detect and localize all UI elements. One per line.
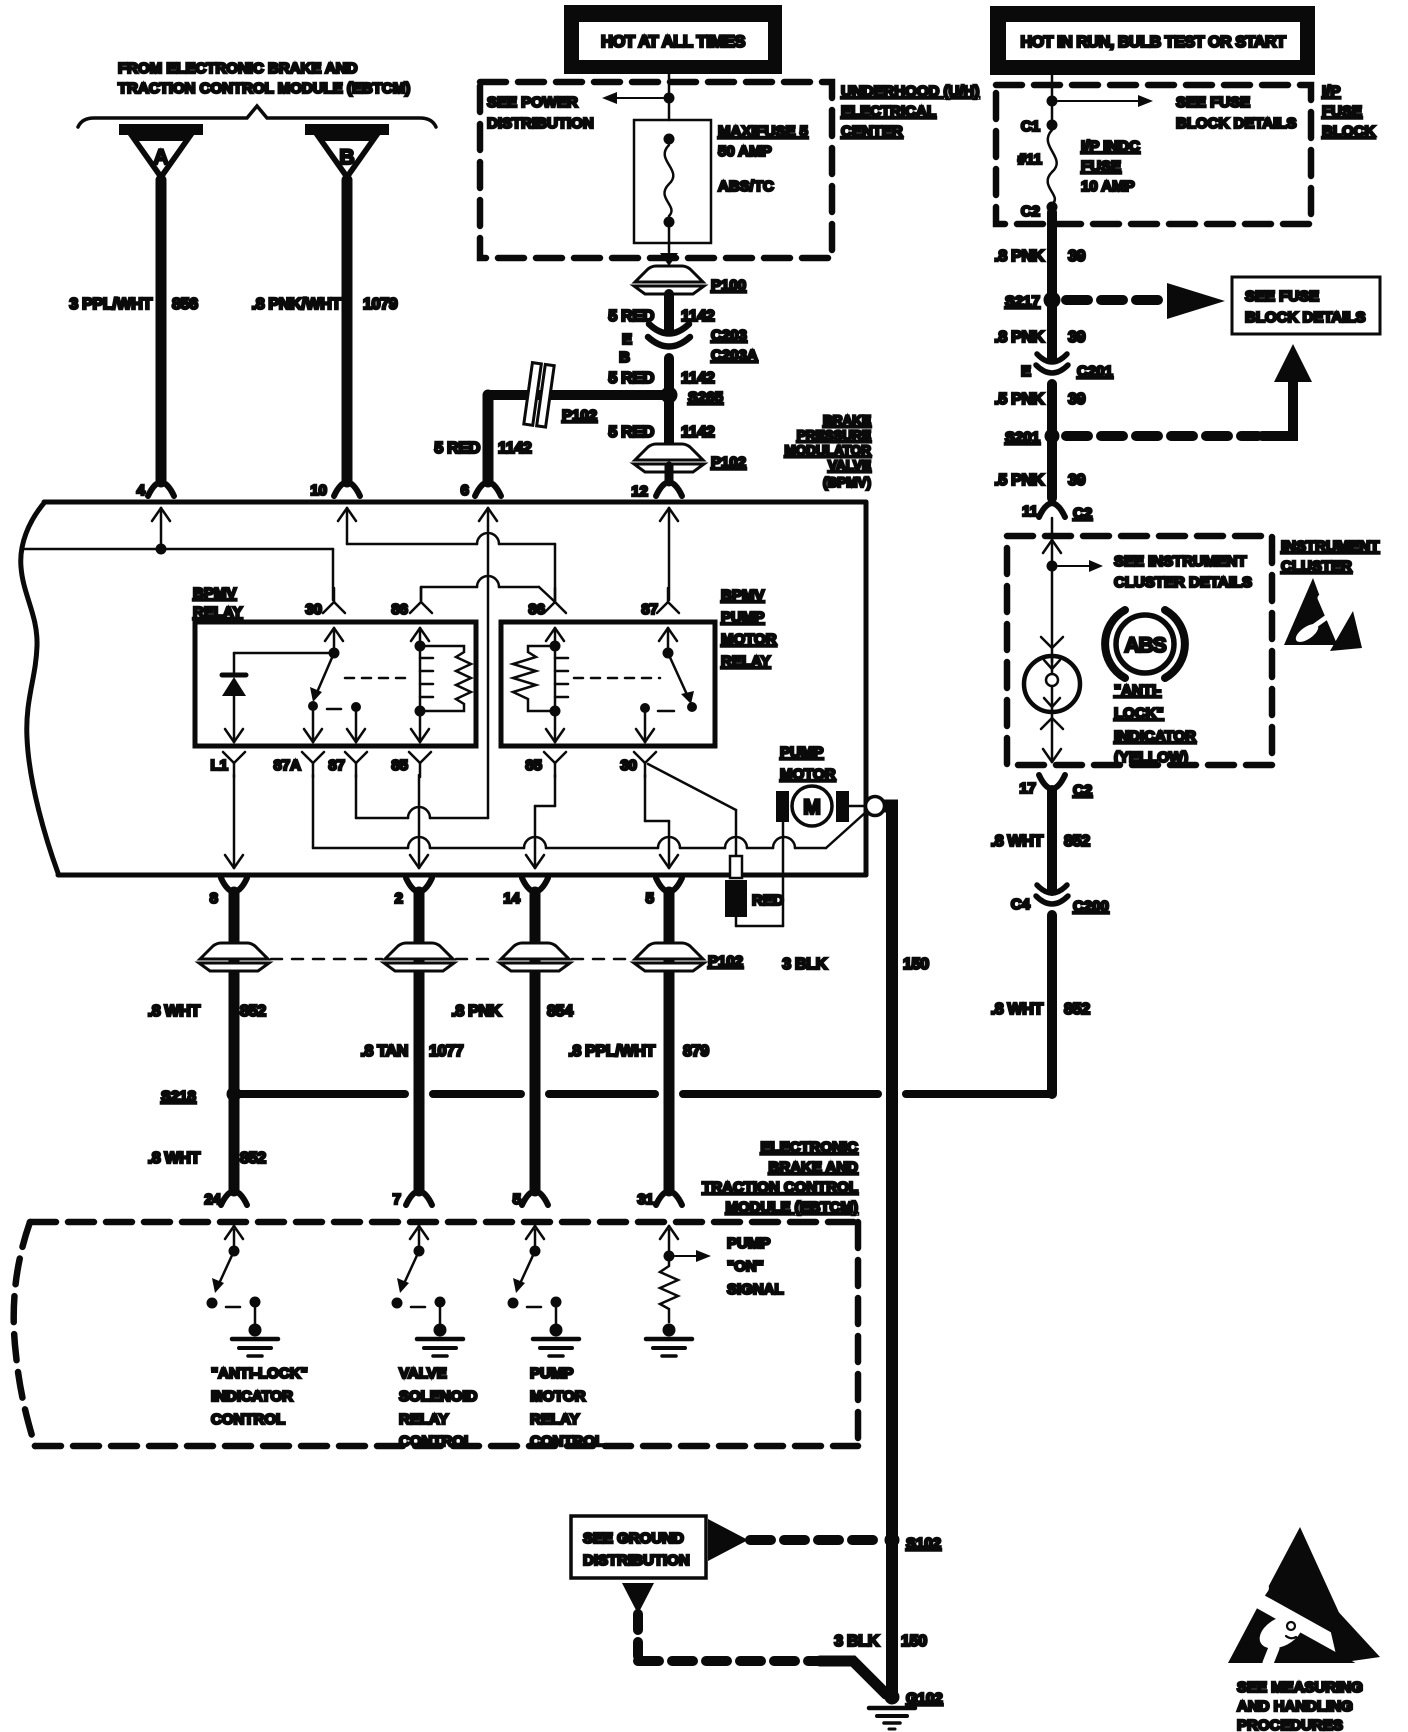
svg-text:.8 TAN: .8 TAN	[360, 1043, 408, 1060]
svg-text:1142: 1142	[681, 370, 715, 387]
svg-text:PUMP: PUMP	[727, 1235, 770, 1252]
svg-text:CONTROL: CONTROL	[211, 1411, 285, 1428]
svg-text:3 BLK: 3 BLK	[834, 1633, 879, 1650]
svg-text:C2: C2	[1073, 505, 1092, 522]
svg-text:852: 852	[1064, 1001, 1090, 1018]
svg-text:UNDERHOOD (U/H): UNDERHOOD (U/H)	[841, 83, 979, 100]
svg-text:5 RED: 5 RED	[608, 370, 654, 387]
svg-text:FUSE: FUSE	[1081, 158, 1121, 175]
svg-text:SEE POWER: SEE POWER	[487, 94, 578, 111]
svg-text:5 RED: 5 RED	[608, 424, 654, 441]
svg-text:39: 39	[1068, 248, 1086, 265]
svg-text:B: B	[619, 349, 630, 366]
svg-text:P102: P102	[711, 454, 746, 471]
svg-text:BLOCK DETAILS: BLOCK DETAILS	[1176, 115, 1297, 132]
svg-text:C1: C1	[1021, 118, 1040, 135]
svg-text:7: 7	[393, 1191, 401, 1208]
svg-text:86: 86	[528, 601, 545, 618]
svg-text:BRAKE: BRAKE	[823, 413, 871, 428]
svg-text:SEE INSTRUMENT: SEE INSTRUMENT	[1114, 553, 1247, 570]
svg-text:2: 2	[395, 890, 403, 907]
svg-text:C2: C2	[1021, 203, 1040, 220]
svg-text:CENTER: CENTER	[841, 123, 903, 140]
svg-text:87: 87	[641, 601, 658, 618]
svg-text:ELECTRONIC: ELECTRONIC	[761, 1139, 859, 1156]
svg-text:1142: 1142	[498, 440, 532, 457]
svg-text:PUMP: PUMP	[530, 1365, 573, 1382]
svg-text:6: 6	[461, 482, 469, 499]
svg-text:BPMV: BPMV	[193, 585, 236, 602]
svg-text:DISTRIBUTION: DISTRIBUTION	[583, 1552, 690, 1569]
svg-text:LOCK": LOCK"	[1114, 705, 1164, 722]
svg-text:39: 39	[1068, 472, 1086, 489]
svg-text:BRAKE AND: BRAKE AND	[769, 1159, 859, 1176]
svg-text:30: 30	[620, 757, 637, 774]
svg-text:#11: #11	[1018, 151, 1042, 168]
svg-text:5: 5	[646, 890, 654, 907]
svg-text:VALVE: VALVE	[828, 458, 871, 473]
svg-text:HOT AT ALL TIMES: HOT AT ALL TIMES	[601, 33, 745, 51]
svg-text:39: 39	[1068, 329, 1086, 346]
svg-text:150: 150	[901, 1633, 927, 1650]
svg-text:17: 17	[1019, 780, 1036, 797]
svg-text:10: 10	[310, 482, 327, 499]
svg-text:C203: C203	[711, 327, 747, 344]
svg-text:A: A	[153, 146, 168, 169]
svg-text:AND HANDLING: AND HANDLING	[1237, 1698, 1353, 1715]
svg-text:S218: S218	[161, 1088, 196, 1105]
svg-text:S102: S102	[906, 1535, 941, 1552]
svg-text:S265: S265	[688, 389, 723, 406]
svg-text:ABS/TC: ABS/TC	[718, 178, 774, 195]
svg-text:TRACTION CONTROL MODULE (EBTCM: TRACTION CONTROL MODULE (EBTCM)	[118, 80, 410, 97]
svg-text:BLOCK: BLOCK	[1322, 123, 1375, 140]
svg-text:B: B	[339, 146, 354, 169]
svg-text:"ANTI-: "ANTI-	[1114, 682, 1161, 699]
svg-text:854: 854	[547, 1003, 573, 1020]
svg-text:S201: S201	[1005, 429, 1040, 446]
svg-text:1142: 1142	[681, 424, 715, 441]
svg-text:RED: RED	[752, 892, 784, 909]
svg-text:CLUSTER: CLUSTER	[1281, 558, 1352, 575]
svg-text:MOTOR: MOTOR	[721, 631, 777, 648]
svg-text:C201: C201	[1077, 363, 1113, 380]
svg-text:24: 24	[204, 1191, 221, 1208]
svg-text:87A: 87A	[273, 757, 301, 774]
svg-text:C4: C4	[1011, 896, 1031, 913]
svg-text:FUSE: FUSE	[1322, 103, 1362, 120]
svg-text:FROM ELECTRONIC BRAKE AND: FROM ELECTRONIC BRAKE AND	[118, 60, 358, 77]
svg-text:.8 WHT: .8 WHT	[148, 1150, 201, 1167]
svg-text:.8 WHT: .8 WHT	[991, 1001, 1044, 1018]
svg-text:RELAY: RELAY	[530, 1411, 579, 1428]
svg-text:5: 5	[513, 1191, 521, 1208]
svg-text:SEE MEASURING: SEE MEASURING	[1237, 1679, 1363, 1696]
svg-text:87: 87	[328, 757, 345, 774]
svg-text:P100: P100	[711, 277, 746, 294]
svg-text:C203A: C203A	[711, 347, 758, 364]
svg-text:31: 31	[637, 1191, 654, 1208]
svg-text:ABS: ABS	[1124, 634, 1166, 657]
svg-text:I/P: I/P	[1322, 83, 1340, 100]
svg-text:INSTRUMENT: INSTRUMENT	[1281, 538, 1379, 555]
svg-text:"ANTI-LOCK": "ANTI-LOCK"	[211, 1365, 308, 1382]
svg-text:SIGNAL: SIGNAL	[727, 1281, 784, 1298]
svg-text:.8 PPL/WHT: .8 PPL/WHT	[568, 1043, 655, 1060]
svg-text:TRACTION CONTROL: TRACTION CONTROL	[702, 1179, 858, 1196]
svg-text:SEE FUSE: SEE FUSE	[1245, 288, 1319, 305]
svg-text:30: 30	[305, 601, 322, 618]
svg-text:S217: S217	[1005, 293, 1040, 310]
svg-text:HOT IN RUN, BULB TEST OR START: HOT IN RUN, BULB TEST OR START	[1020, 34, 1286, 51]
svg-text:MODULATOR: MODULATOR	[785, 443, 872, 458]
svg-text:1077: 1077	[429, 1043, 464, 1060]
svg-text:INDICATOR: INDICATOR	[1114, 728, 1196, 745]
svg-text:P102: P102	[562, 407, 597, 424]
svg-text:PROCEDURES: PROCEDURES	[1237, 1717, 1343, 1732]
svg-text:85: 85	[391, 757, 408, 774]
svg-text:39: 39	[1068, 391, 1086, 408]
svg-text:G102: G102	[906, 1690, 943, 1707]
svg-text:5 RED: 5 RED	[434, 440, 480, 457]
svg-text:C200: C200	[1073, 898, 1109, 915]
svg-text:C2: C2	[1073, 782, 1092, 799]
svg-text:14: 14	[503, 890, 520, 907]
svg-text:PRESSURE: PRESSURE	[797, 428, 871, 443]
svg-text:852: 852	[1064, 833, 1090, 850]
svg-text:E: E	[622, 331, 632, 348]
svg-text:3 BLK: 3 BLK	[782, 956, 827, 973]
svg-text:879: 879	[683, 1043, 709, 1060]
svg-text:RELAY: RELAY	[721, 653, 770, 670]
svg-text:856: 856	[172, 296, 198, 313]
svg-text:10 AMP: 10 AMP	[1081, 178, 1135, 195]
svg-text:"ON": "ON"	[727, 1258, 764, 1275]
svg-text:VALVE: VALVE	[399, 1365, 447, 1382]
svg-text:SEE FUSE: SEE FUSE	[1176, 94, 1250, 111]
svg-text:3 PPL/WHT: 3 PPL/WHT	[69, 296, 152, 313]
svg-text:I/P INDC: I/P INDC	[1081, 138, 1140, 155]
svg-text:852: 852	[240, 1003, 266, 1020]
svg-text:1079: 1079	[363, 296, 398, 313]
svg-text:4: 4	[137, 482, 146, 499]
svg-text:P102: P102	[708, 953, 743, 970]
svg-text:.5 PNK: .5 PNK	[994, 391, 1045, 408]
svg-text:.8 PNK: .8 PNK	[994, 329, 1045, 346]
svg-text:BPMV: BPMV	[721, 587, 764, 604]
svg-text:12: 12	[631, 483, 648, 500]
svg-text:MOTOR: MOTOR	[530, 1388, 586, 1405]
svg-text:INDICATOR: INDICATOR	[211, 1388, 293, 1405]
svg-text:E: E	[1021, 363, 1031, 380]
svg-text:L1: L1	[210, 757, 228, 774]
svg-text:8: 8	[210, 890, 218, 907]
svg-text:MOTOR: MOTOR	[780, 766, 836, 783]
svg-text:SEE GROUND: SEE GROUND	[583, 1530, 684, 1547]
svg-text:RELAY: RELAY	[399, 1411, 448, 1428]
svg-text:.8 PNK: .8 PNK	[451, 1003, 502, 1020]
svg-text:M: M	[803, 796, 821, 819]
svg-text:CLUSTER DETAILS: CLUSTER DETAILS	[1114, 574, 1252, 591]
svg-text:150: 150	[903, 956, 929, 973]
svg-text:RELAY: RELAY	[193, 604, 242, 621]
svg-text:852: 852	[240, 1150, 266, 1167]
svg-text:.5 PNK: .5 PNK	[994, 472, 1045, 489]
svg-text:50 AMP: 50 AMP	[718, 143, 772, 160]
svg-text:(BPMV): (BPMV)	[823, 475, 871, 490]
svg-text:CONTROL: CONTROL	[530, 1433, 604, 1450]
svg-text:85: 85	[525, 757, 542, 774]
svg-text:DISTRIBUTION: DISTRIBUTION	[487, 115, 594, 132]
svg-text:MODULE (EBTCM): MODULE (EBTCM)	[726, 1199, 858, 1216]
svg-text:PUMP: PUMP	[721, 609, 764, 626]
svg-text:86: 86	[391, 601, 408, 618]
svg-text:PUMP: PUMP	[780, 744, 823, 761]
svg-text:11: 11	[1022, 503, 1038, 520]
svg-text:SOLENOID: SOLENOID	[399, 1388, 478, 1405]
svg-text:(YELLOW): (YELLOW)	[1114, 749, 1188, 766]
svg-text:.8 PNK: .8 PNK	[994, 248, 1045, 265]
svg-text:.8 WHT: .8 WHT	[148, 1003, 201, 1020]
svg-text:MAXIFUSE 5: MAXIFUSE 5	[718, 123, 808, 140]
svg-text:ELECTRICAL: ELECTRICAL	[841, 103, 936, 120]
svg-text:BLOCK DETAILS: BLOCK DETAILS	[1245, 309, 1366, 326]
svg-text:.8 WHT: .8 WHT	[991, 833, 1044, 850]
svg-text:CONTROL: CONTROL	[399, 1433, 473, 1450]
svg-text:.8 PNK/WHT: .8 PNK/WHT	[252, 296, 342, 313]
